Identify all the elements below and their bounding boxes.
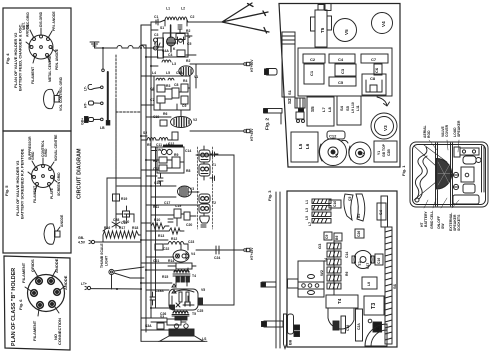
svg-text:SW: SW [441, 223, 445, 229]
valve holder V2 socket (Fig 4) [26, 28, 56, 63]
svg-text:C17: C17 [366, 263, 370, 269]
transformer T3 underside [364, 296, 384, 315]
connector lug c [261, 282, 276, 287]
IF labels [153, 148, 178, 171]
svg-text:C1: C1 [309, 70, 314, 76]
svg-text:T4: T4 [337, 298, 342, 304]
svg-text:R18: R18 [132, 226, 138, 230]
svg-text:S2: S2 [287, 98, 292, 104]
coil block S4 [337, 96, 361, 125]
svg-text:T5: T5 [320, 27, 325, 33]
junction dots [102, 47, 152, 309]
svg-text:S2: S2 [143, 131, 147, 135]
svg-text:R12: R12 [171, 237, 177, 241]
svg-text:K: K [173, 47, 176, 51]
svg-text:T2: T2 [357, 261, 362, 266]
svg-text:R8: R8 [186, 169, 190, 173]
battery LB bar [100, 48, 110, 130]
can C6 [374, 64, 382, 75]
svg-text:C3: C3 [154, 33, 158, 37]
svg-text:L5: L5 [305, 216, 309, 220]
valve V4 top view [372, 13, 393, 34]
svg-text:GB-: GB- [78, 236, 84, 240]
wire HT tap2 [190, 130, 243, 132]
svg-text:ANODE: ANODE [54, 258, 59, 273]
wafer labels [324, 252, 349, 276]
plug LT+ [81, 282, 141, 290]
svg-text:FILAMENT: FILAMENT [21, 262, 26, 283]
schematic cross wires [117, 25, 199, 330]
speaker half-disc [437, 159, 452, 190]
svg-text:R6: R6 [345, 272, 349, 276]
wire GB- feed [103, 100, 141, 231]
can C1 [304, 64, 324, 84]
Fig1 caption [401, 165, 406, 176]
svg-text:GRIDS: GRIDS [30, 259, 35, 272]
svg-text:LS: LS [202, 337, 207, 341]
antenna A1 [151, 3, 269, 33]
can C7 [361, 54, 388, 63]
mixer labels [150, 71, 187, 108]
tag strip [381, 196, 392, 344]
svg-text:R6: R6 [163, 112, 167, 116]
leader lines top [429, 140, 459, 152]
label G3 [317, 243, 322, 249]
svg-text:C7: C7 [150, 98, 154, 102]
svg-text:HT+45V: HT+45V [250, 128, 254, 141]
can C8 [362, 74, 386, 95]
svg-text:L7: L7 [308, 222, 312, 226]
svg-text:R15: R15 [162, 275, 168, 279]
svg-text:V3: V3 [383, 125, 388, 131]
svg-text:C9: C9 [325, 235, 329, 239]
svg-text:T4: T4 [192, 274, 196, 278]
svg-text:G3: G3 [317, 243, 322, 249]
battery plug LT- [84, 84, 104, 91]
svg-text:ANODE: ANODE [26, 24, 30, 37]
svg-text:T3: T3 [371, 303, 377, 309]
svg-text:LB: LB [100, 126, 105, 130]
volume control knob (Fig 4) [44, 89, 60, 108]
wire bus V3 [150, 25, 152, 318]
extra small parts [150, 120, 178, 329]
cabinet back [410, 142, 488, 207]
svg-text:GRID: GRID [44, 148, 48, 157]
fuse X1 [112, 218, 120, 227]
svg-text:L11: L11 [356, 105, 360, 111]
capacitor C24 [214, 246, 220, 260]
battery contacts B8 [288, 325, 300, 345]
svg-text:C4: C4 [338, 57, 344, 62]
can C9v [377, 203, 386, 220]
grid stopper box [168, 259, 196, 269]
S2 label [287, 98, 292, 104]
valve holder V3 socket (Fig 5) [28, 158, 57, 192]
resistor R12 [169, 228, 184, 241]
svg-text:C25: C25 [197, 309, 203, 313]
svg-text:V1: V1 [334, 152, 339, 158]
can C2A [356, 309, 363, 341]
Fig3 caption [267, 190, 272, 201]
svg-text:L1: L1 [166, 7, 170, 11]
output transformer T5 [172, 311, 196, 320]
svg-text:L1: L1 [305, 200, 309, 204]
wire bus V2 [145, 45, 147, 332]
svg-text:PEN. ANODE: PEN. ANODE [55, 48, 59, 70]
svg-text:C20: C20 [186, 223, 192, 227]
switch box S3 [151, 315, 186, 325]
battery panel edge [436, 143, 438, 206]
svg-text:FILAMENT: FILAMENT [32, 320, 37, 341]
can C5 [329, 77, 356, 86]
coil L8 underside [362, 277, 377, 289]
svg-text:VOL CONTROL GRID: VOL CONTROL GRID [59, 76, 63, 111]
svg-text:C5: C5 [338, 80, 344, 85]
wire bus V3b [155, 147, 157, 308]
svg-text:ANODE: ANODE [60, 214, 64, 227]
label S6 [392, 283, 397, 289]
svg-text:FILAMENT: FILAMENT [33, 185, 37, 203]
svg-text:C5: C5 [187, 42, 191, 46]
svg-text:C3: C3 [340, 68, 345, 74]
mixer cluster [154, 76, 190, 110]
chassis parts right [453, 146, 484, 204]
Fig5 pin labels [28, 134, 61, 203]
coil L6 row [141, 138, 172, 141]
svg-text:C8: C8 [174, 83, 178, 87]
svg-text:C22: C22 [163, 247, 169, 251]
IF transformer T2 [199, 194, 216, 227]
svg-text:C2B: C2B [387, 149, 391, 156]
svg-text:LT+: LT+ [81, 282, 87, 286]
svg-text:NOVAL CENTRE: NOVAL CENTRE [54, 134, 58, 161]
Fig6 caption [11, 268, 23, 346]
svg-text:BATTERY SCREENED R.F. PENTODE: BATTERY SCREENED R.F. PENTODE [20, 148, 25, 219]
small can C26 [355, 229, 364, 238]
svg-text:LIGHT: LIGHT [105, 255, 109, 266]
ferrite rod S1 [282, 32, 295, 97]
svg-text:Fig. 6: Fig. 6 [18, 299, 23, 310]
svg-text:L7: L7 [321, 107, 326, 112]
svg-text:C12: C12 [329, 134, 337, 139]
svg-text:C7: C7 [371, 57, 377, 62]
Fig2 chassis frame [279, 4, 400, 168]
svg-text:GB TOP: GB TOP [382, 143, 386, 157]
svg-text:C8: C8 [370, 76, 376, 81]
svg-text:DIS.GRID: DIS.GRID [39, 11, 43, 27]
svg-text:S5: S5 [310, 106, 315, 112]
coil bar labels [305, 200, 312, 226]
svg-text:BATTERY: BATTERY [424, 211, 428, 227]
Fig4 pin labels [22, 11, 59, 84]
Fig5 caption [4, 148, 25, 219]
IF strip frame [298, 48, 392, 96]
svg-text:HT-: HT- [84, 103, 88, 108]
Fig3 chassis frame [287, 191, 397, 347]
detector cluster [174, 204, 196, 226]
jack mechanism [295, 98, 305, 123]
svg-text:Fig. 4: Fig. 4 [5, 53, 10, 64]
wire bus V4 [115, 178, 117, 228]
panel diagonals [414, 145, 447, 200]
svg-text:L9 L10: L9 L10 [351, 102, 355, 113]
svg-text:V5: V5 [344, 29, 349, 35]
aerial coil bars L1-L7 [312, 199, 331, 223]
svg-text:C26: C26 [160, 312, 166, 316]
svg-text:HT+45V: HT+45V [250, 247, 254, 260]
IF shield dashed [198, 147, 213, 229]
svg-text:R19: R19 [121, 197, 127, 201]
dashed chassis line [116, 55, 141, 178]
trimmer C12 [327, 131, 345, 139]
AF coupling T3 [164, 240, 194, 250]
svg-text:GRID CELL: GRID CELL [430, 211, 434, 229]
aerial rod stub [325, 4, 331, 11]
svg-text:C16: C16 [377, 258, 381, 264]
fig6 box frame [4, 256, 70, 350]
svg-text:R17: R17 [119, 226, 125, 230]
IF amp cluster [157, 145, 184, 173]
Fig2 caption [265, 118, 270, 130]
leader lines bottom [424, 198, 459, 208]
capacitor C1 [151, 15, 158, 25]
wire det row [151, 186, 199, 197]
speaker cutout S1 [344, 194, 365, 221]
CIRCUIT DIAGRAM title [77, 148, 83, 199]
svg-text:C5A: C5A [176, 71, 183, 75]
svg-text:V2: V2 [193, 118, 197, 122]
svg-text:L8: L8 [327, 107, 332, 112]
coil L1 [160, 17, 188, 26]
top label 1 [423, 125, 431, 138]
ground [90, 42, 99, 48]
svg-text:R2: R2 [186, 59, 190, 63]
svg-text:B6: B6 [335, 236, 339, 240]
jack body [288, 314, 294, 334]
battery Y1 block [374, 141, 397, 162]
svg-text:Fig. 3: Fig. 3 [267, 190, 272, 201]
speaker bell [328, 308, 354, 333]
svg-text:C5: C5 [348, 197, 352, 201]
svg-text:R1: R1 [154, 42, 158, 46]
coil block L5 L6 [291, 132, 318, 162]
svg-text:L6: L6 [305, 143, 310, 149]
svg-text:L3: L3 [305, 208, 309, 212]
svg-text:PLAN OF CLASS "B" HOLDER: PLAN OF CLASS "B" HOLDER [11, 268, 17, 346]
svg-text:C6: C6 [374, 67, 379, 73]
labels R5 C11 [147, 143, 170, 147]
svg-text:C15: C15 [346, 325, 350, 331]
loudspeaker LS [141, 324, 207, 342]
svg-text:C4: C4 [168, 53, 172, 57]
svg-text:GB+: GB+ [81, 118, 85, 125]
top label 2 [441, 124, 449, 137]
fig5 box frame [3, 131, 71, 253]
svg-text:B5: B5 [357, 214, 361, 218]
can C4 [329, 54, 355, 63]
svg-text:METAL CENTRE: METAL CENTRE [48, 55, 52, 82]
svg-text:SCREEN GRID: SCREEN GRID [57, 172, 61, 196]
svg-text:V4: V4 [381, 21, 386, 27]
plug HT+90V [244, 59, 254, 72]
switch block S5 [307, 97, 334, 126]
svg-text:2: 2 [189, 35, 191, 39]
plug GB-b [78, 236, 141, 245]
top label 3 [453, 120, 461, 137]
svg-text:LT-: LT- [84, 86, 88, 91]
wire HT+90V [190, 64, 243, 88]
Fig4 knob label [59, 76, 63, 111]
svg-text:C10: C10 [153, 115, 159, 119]
valve V3 top view b [371, 97, 397, 139]
svg-text:SPEAKER: SPEAKER [457, 120, 461, 137]
top cap connector (Fig 5) [44, 224, 60, 245]
svg-text:C23A: C23A [155, 289, 164, 293]
svg-text:CONNECTION: CONNECTION [57, 318, 62, 345]
svg-text:R20: R20 [123, 220, 129, 224]
oscillator cluster box [154, 25, 197, 62]
svg-text:R13: R13 [158, 234, 164, 238]
svg-text:S1: S1 [287, 89, 292, 95]
svg-text:Fig. 2: Fig. 2 [265, 118, 270, 130]
can C16 [375, 254, 383, 265]
bottom label 4 [449, 213, 461, 231]
svg-text:S3A: S3A [145, 324, 152, 328]
IF transformer T1 [199, 146, 218, 181]
svg-text:L8: L8 [367, 282, 371, 286]
svg-text:L3: L3 [172, 62, 176, 66]
valve V5 top view [334, 19, 357, 42]
svg-text:L4: L4 [152, 71, 156, 75]
speaker jack bar [262, 321, 284, 327]
svg-text:S4: S4 [339, 105, 344, 111]
corner disc [365, 319, 387, 346]
battery plug GB+ [81, 117, 104, 126]
svg-text:GRID: GRID [31, 151, 35, 160]
svg-text:C14: C14 [345, 252, 349, 258]
svg-text:Fig. 5: Fig. 5 [4, 185, 9, 196]
connector lug b [264, 109, 283, 125]
small can B6 [334, 233, 342, 241]
valve V4 [173, 244, 195, 262]
svg-text:C16: C16 [154, 181, 160, 185]
chassis edge view rails [276, 192, 280, 348]
svg-text:C14: C14 [185, 149, 191, 153]
svg-text:R2: R2 [186, 29, 190, 33]
svg-text:C12: C12 [168, 142, 174, 146]
label L1 L2 [166, 7, 194, 20]
svg-text:COVER: COVER [445, 124, 449, 137]
svg-text:T1: T1 [212, 163, 216, 167]
resistor R16 long [103, 226, 141, 242]
trimmer C10 [329, 200, 341, 208]
can C3 [335, 64, 356, 76]
svg-text:L5: L5 [298, 143, 303, 149]
svg-text:S6: S6 [392, 283, 397, 289]
svg-text:T5: T5 [192, 312, 196, 316]
svg-text:PLATE: PLATE [50, 187, 54, 199]
svg-text:W2: W2 [319, 269, 324, 276]
resistor R20 box [116, 211, 134, 224]
resistor R10 [151, 218, 169, 229]
svg-text:R5: R5 [147, 143, 151, 147]
class B holder socket (Fig 6) [25, 270, 65, 316]
svg-text:PRI. ANODE: PRI. ANODE [52, 11, 56, 31]
svg-text:C9: C9 [182, 104, 186, 108]
transformer T4 block [326, 295, 358, 308]
chassis divider [451, 143, 453, 206]
Fig6 pin labels [21, 258, 68, 345]
capacitor C25 [197, 298, 203, 313]
svg-text:R16: R16 [104, 226, 110, 230]
svg-text:R10: R10 [154, 218, 160, 222]
svg-text:C17: C17 [164, 201, 170, 205]
svg-text:L5: L5 [166, 71, 170, 75]
svg-text:BATTERY FEED, CHARGER & OSC.: BATTERY FEED, CHARGER & OSC. [18, 24, 23, 92]
svg-text:R11: R11 [153, 205, 159, 209]
driver transformer T4 [168, 268, 196, 293]
output valve V5 [169, 288, 205, 310]
valve strip [298, 282, 324, 289]
svg-text:C1: C1 [154, 15, 158, 19]
svg-text:C11: C11 [156, 143, 162, 147]
gang capacitor V2 [349, 142, 371, 164]
can C2 [303, 54, 325, 63]
gang frame [288, 261, 325, 297]
svg-text:R4: R4 [183, 79, 187, 83]
svg-text:C23: C23 [188, 240, 194, 244]
bottom label 3 [437, 216, 445, 229]
svg-text:ROD: ROD [427, 130, 431, 138]
svg-text:SOCKETS: SOCKETS [457, 214, 461, 231]
svg-text:CIRCUIT DIAGRAM: CIRCUIT DIAGRAM [77, 148, 83, 199]
bottom label 1 [420, 211, 428, 227]
svg-text:V5: V5 [201, 288, 205, 292]
valve V1 [179, 66, 198, 79]
wafer switch stack [327, 241, 341, 295]
svg-text:S5: S5 [345, 105, 350, 111]
svg-text:C21: C21 [153, 259, 159, 263]
svg-text:S1: S1 [160, 26, 164, 30]
Fig4 caption [5, 24, 23, 92]
extra component labels [143, 26, 192, 328]
svg-text:4.5V: 4.5V [78, 241, 86, 245]
connector lug a [265, 69, 278, 76]
fig4 box frame [3, 8, 71, 131]
svg-text:ANODE: ANODE [63, 275, 68, 290]
jack blade [284, 314, 287, 349]
svg-text:V3: V3 [190, 187, 194, 191]
wire earth bus [95, 46, 159, 49]
svg-text:C24: C24 [214, 256, 220, 260]
svg-text:V4: V4 [191, 252, 195, 256]
wire bus V1 [140, 25, 142, 341]
svg-text:HT+90V: HT+90V [250, 59, 254, 72]
switch S7 [373, 322, 382, 332]
battery cable [415, 147, 427, 202]
output transformer T5 block [311, 5, 332, 48]
svg-text:C4A: C4A [162, 49, 169, 53]
scale lamp [109, 267, 144, 289]
svg-text:T2: T2 [212, 201, 216, 205]
svg-text:C26: C26 [357, 231, 361, 237]
small can C9 [324, 232, 332, 240]
plug HT+45V b [244, 247, 254, 260]
svg-text:R9: R9 [174, 153, 178, 157]
svg-text:C2: C2 [190, 15, 194, 19]
svg-text:C28: C28 [113, 218, 119, 222]
svg-text:R14: R14 [168, 259, 174, 263]
